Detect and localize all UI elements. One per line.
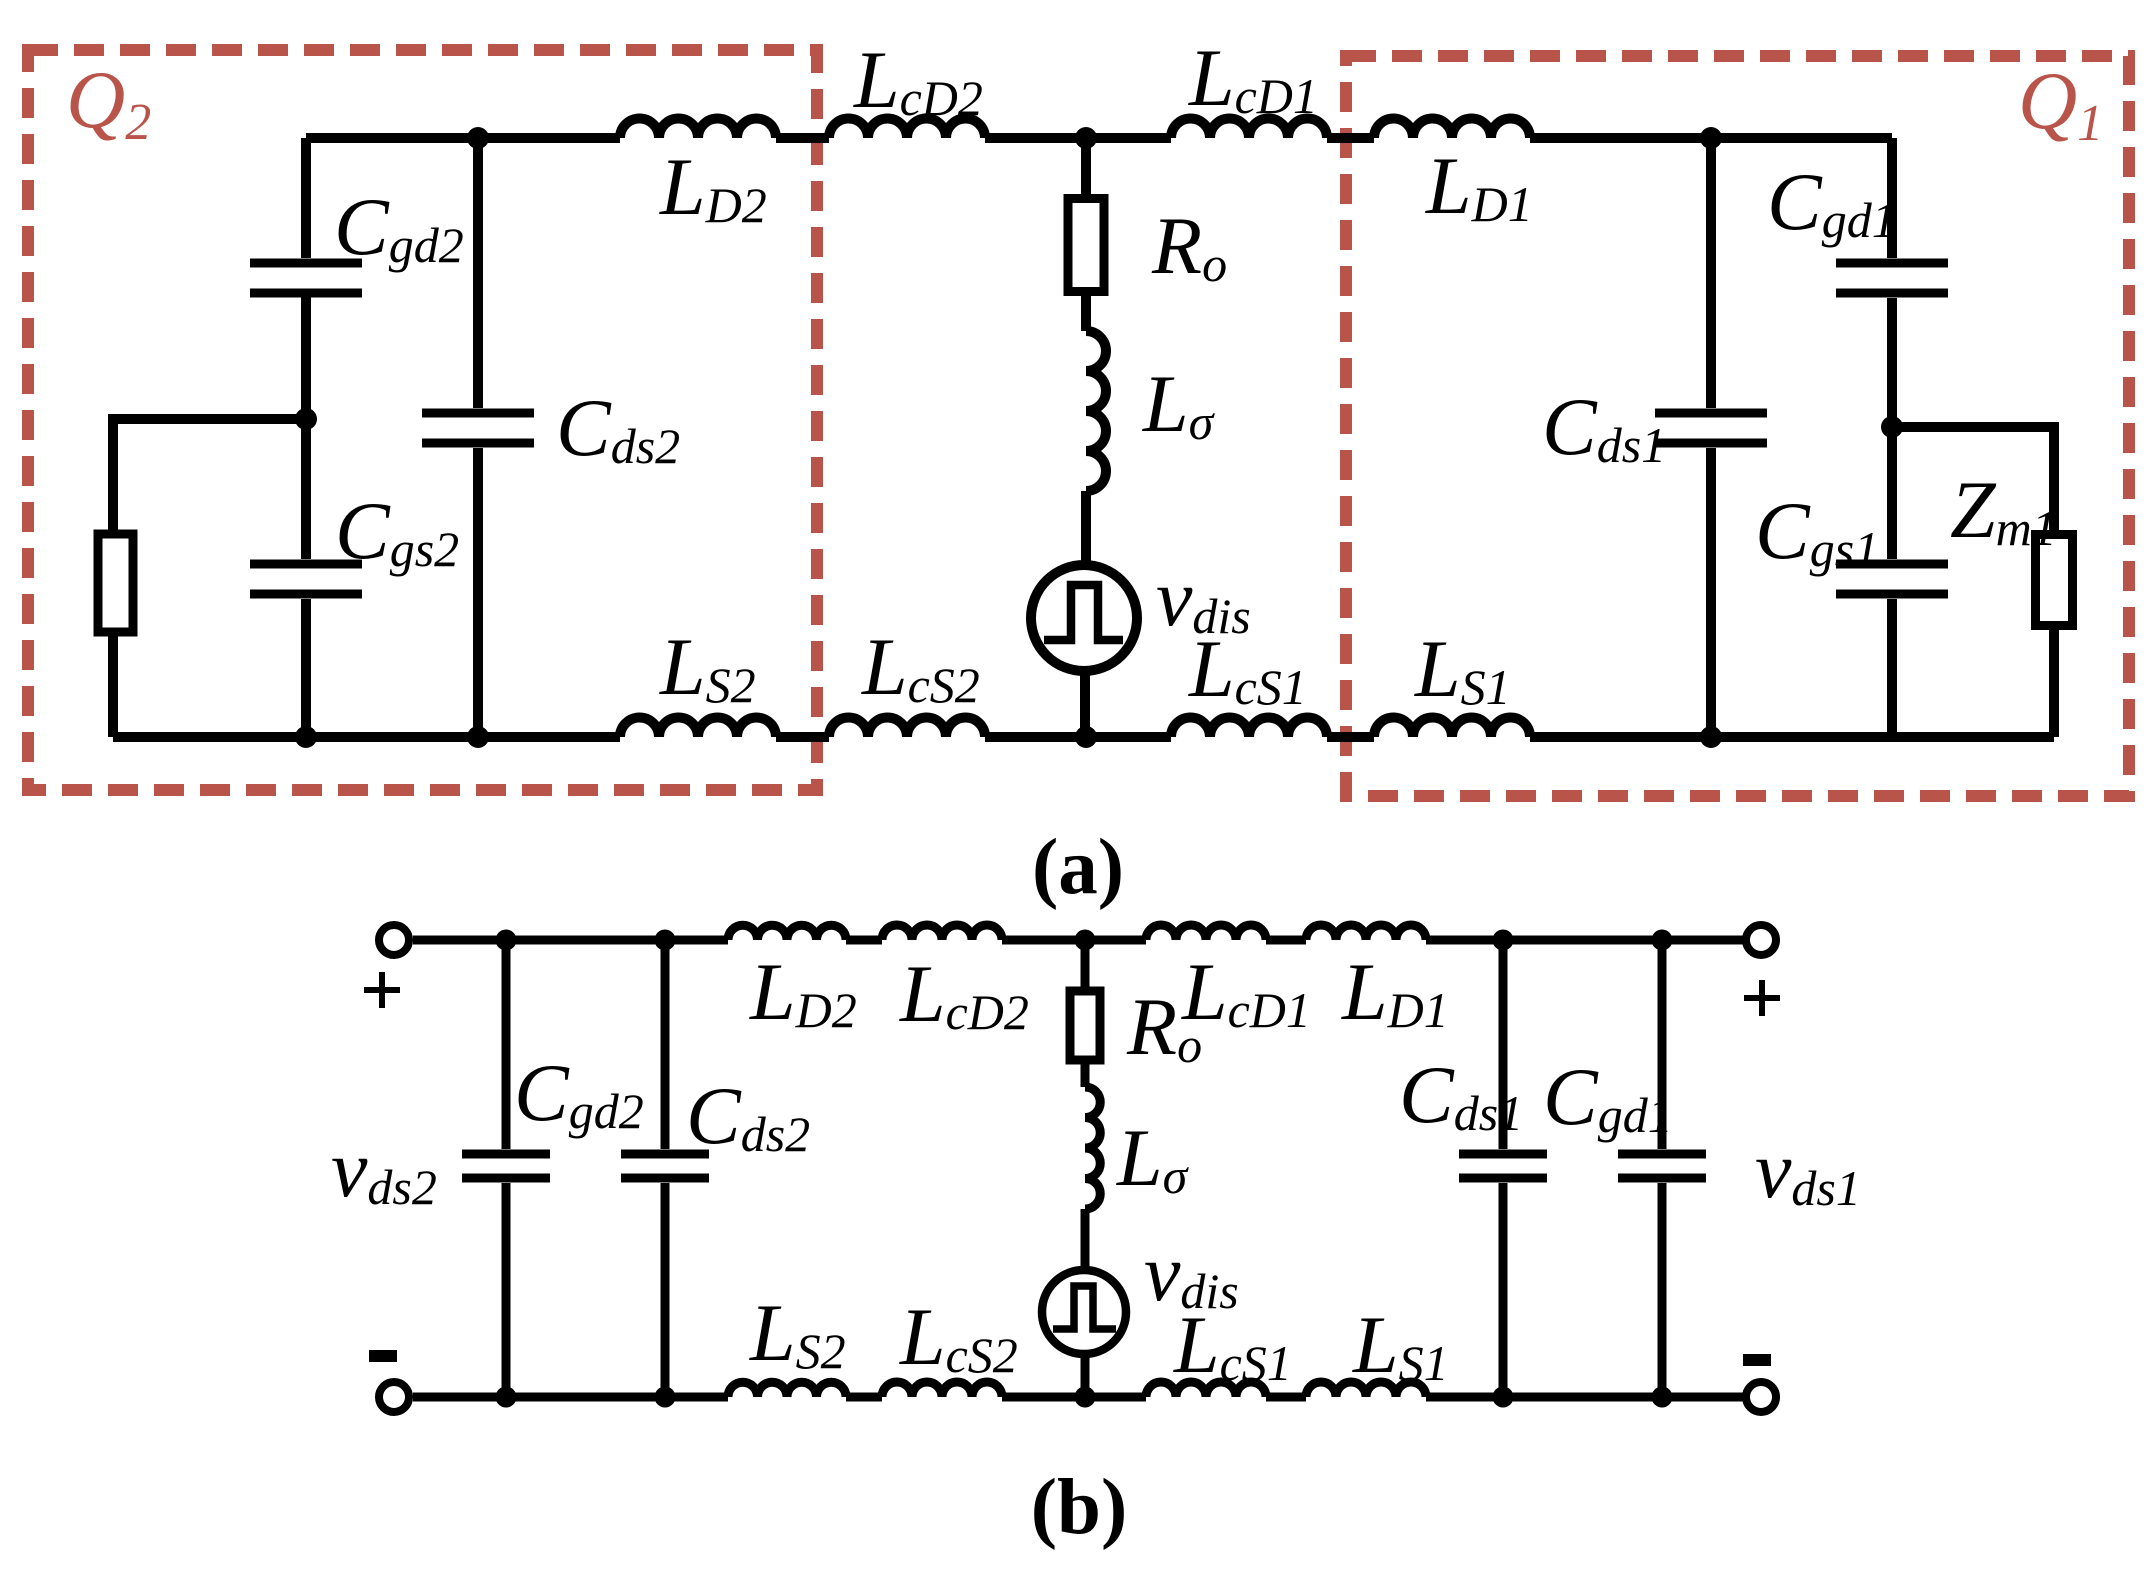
capacitor Cgd2 branch wires bbox=[301, 138, 311, 419]
capacitor Cgd1 (b) plates bbox=[1618, 1154, 1706, 1178]
wire bbox=[1327, 133, 1374, 143]
terminal circle bottom-right (b) bbox=[1746, 1382, 1776, 1412]
inductor LD1 (b) bbox=[1306, 925, 1426, 940]
capacitor Cgs1 bbox=[1836, 564, 1948, 594]
node Cds1 top (b) bbox=[1493, 930, 1514, 951]
svg-text:(a): (a) bbox=[1032, 824, 1124, 911]
capacitor Cgs1 branch wires bbox=[1887, 427, 1897, 737]
source vdis bbox=[1031, 565, 1137, 671]
inductor LD2 (b) bbox=[728, 925, 846, 940]
capacitor Cds1 bbox=[1655, 413, 1767, 443]
node Cgd1 bottom (b) bbox=[1652, 1387, 1673, 1408]
inductor LcS2 bbox=[829, 718, 985, 738]
node drain Q1 (top rail, Cds1 tap) bbox=[1700, 127, 1722, 149]
inductor LS2 bbox=[620, 718, 776, 738]
capacitor Cds2 bbox=[422, 413, 534, 443]
inductor LcS1 bbox=[1171, 718, 1327, 738]
wire bbox=[776, 732, 829, 742]
inductor LS1 bbox=[1374, 718, 1530, 738]
resistor Zm1 bbox=[2036, 535, 2073, 626]
wire bottom rail right bbox=[1530, 732, 2054, 742]
resistor Zm2 (unlabeled) bbox=[98, 534, 133, 632]
capacitor Cds2 branch wires bbox=[473, 138, 483, 737]
wire bbox=[1081, 1209, 1090, 1272]
wire bbox=[1327, 732, 1374, 742]
svg-text:(b): (b) bbox=[1031, 1464, 1128, 1551]
node Cds2 bottom (b) bbox=[655, 1387, 676, 1408]
pulse glyph of vdis (a) bbox=[1044, 585, 1123, 640]
inductor LS2 (b) bbox=[728, 1382, 846, 1397]
gate wire bbox=[113, 419, 306, 737]
node top-center (Ro branch tap) bbox=[1075, 127, 1097, 149]
terminal circle bottom-left (b) bbox=[379, 1382, 409, 1412]
inductor LS1 (b) bbox=[1306, 1382, 1426, 1397]
wire bbox=[776, 133, 829, 143]
capacitor Cds1 (b) plates bbox=[1459, 1154, 1547, 1178]
wire top rail (b) bbox=[413, 936, 728, 945]
node Cgd2 top (b) bbox=[496, 930, 517, 951]
capacitor Cgd1 (b) branch bbox=[1658, 940, 1667, 1397]
inductor LcD1 (b) bbox=[1146, 925, 1266, 940]
node source Q2 (Cds2 tap) bbox=[467, 726, 489, 748]
node gate Q2 bbox=[295, 408, 317, 430]
wire bbox=[1080, 672, 1090, 737]
node drain Q2 (top rail, Cds2 tap) bbox=[467, 127, 489, 149]
wire bbox=[1002, 936, 1146, 945]
wire bbox=[1002, 1393, 1146, 1402]
source vdis (b) bbox=[1042, 1270, 1126, 1354]
capacitor Cgd1 branch wires bbox=[1887, 138, 1897, 427]
wire bbox=[1081, 1352, 1090, 1397]
capacitor Cds2 (b) branch bbox=[661, 940, 670, 1397]
capacitor Cds2 (b) plates bbox=[621, 1154, 709, 1178]
capacitor Cgd1 bbox=[1836, 263, 1948, 293]
wire bbox=[1266, 936, 1306, 945]
inductor Lsigma (vertical) bbox=[1086, 331, 1106, 491]
capacitor Cgd2 bbox=[250, 263, 362, 293]
inductor LD2 bbox=[620, 119, 776, 138]
capacitor Cgd2 (b) plates bbox=[462, 1154, 550, 1178]
wire bbox=[1426, 936, 1743, 945]
inductor LD1 bbox=[1374, 119, 1530, 138]
inductor LcS1 (b) bbox=[1146, 1382, 1266, 1397]
plus sign left (b) bbox=[364, 972, 400, 1008]
transistor boundary box Q2 (dashed) bbox=[28, 50, 817, 790]
plus sign right (b) bbox=[1744, 980, 1780, 1016]
node gate Q1 bbox=[1881, 416, 1903, 438]
node Cgd1 top (b) bbox=[1652, 930, 1673, 951]
capacitor Cgd2 (b) branch bbox=[502, 940, 511, 1397]
wire bbox=[1426, 1393, 1743, 1402]
wire bottom rail left bbox=[113, 732, 620, 742]
node bottom-center (b) bbox=[1075, 1387, 1096, 1408]
inductor Lsigma (b) bbox=[1085, 1087, 1100, 1209]
wire bottom rail (b) bbox=[413, 1393, 728, 1402]
node bottom-center (vdis branch tap) bbox=[1075, 726, 1097, 748]
node Cds1 bottom (b) bbox=[1493, 1387, 1514, 1408]
wire bbox=[1266, 1393, 1306, 1402]
terminal circle top-left (b) bbox=[379, 925, 409, 955]
node Cgd2 bottom (b) bbox=[496, 1387, 517, 1408]
minus sign right (b) bbox=[1743, 1354, 1771, 1366]
inductor LcD2 (b) bbox=[882, 925, 1002, 940]
capacitor Cgs2 branch wires bbox=[301, 419, 311, 737]
wire bbox=[1081, 491, 1091, 566]
capacitor Cds1 (b) branch bbox=[1499, 940, 1508, 1397]
resistor Ro (b) bbox=[1070, 991, 1100, 1060]
wire bbox=[846, 936, 882, 945]
wire bbox=[985, 732, 1171, 742]
center column: wire from top node bbox=[1081, 138, 1091, 331]
inductor LcD2 bbox=[829, 119, 985, 138]
resistor Ro bbox=[1068, 199, 1104, 292]
pulse glyph of vdis (b) bbox=[1053, 1286, 1116, 1329]
center column (b) bbox=[1081, 940, 1090, 1087]
wire top rail right segment bbox=[1530, 133, 1892, 143]
capacitor Cgs2 bbox=[250, 564, 362, 594]
minus sign left (b) bbox=[369, 1350, 397, 1362]
wire bbox=[985, 133, 1171, 143]
wire top rail left segment bbox=[306, 133, 620, 143]
wire to Zm1 bbox=[1892, 427, 2054, 737]
node top-center (b) bbox=[1075, 930, 1096, 951]
inductor LcS2 (b) bbox=[882, 1382, 1002, 1397]
node Cds2 top (b) bbox=[655, 930, 676, 951]
node source Q2 (Cgs2 tap) bbox=[295, 726, 317, 748]
inductor LcD1 bbox=[1171, 119, 1327, 138]
terminal circle top-right (b) bbox=[1746, 925, 1776, 955]
capacitor Cds1 branch wires bbox=[1706, 138, 1716, 737]
node source Q1 (Cds1 tap) bbox=[1700, 726, 1722, 748]
wire bbox=[846, 1393, 882, 1402]
transistor boundary box Q1 (dashed) bbox=[1346, 56, 2129, 796]
